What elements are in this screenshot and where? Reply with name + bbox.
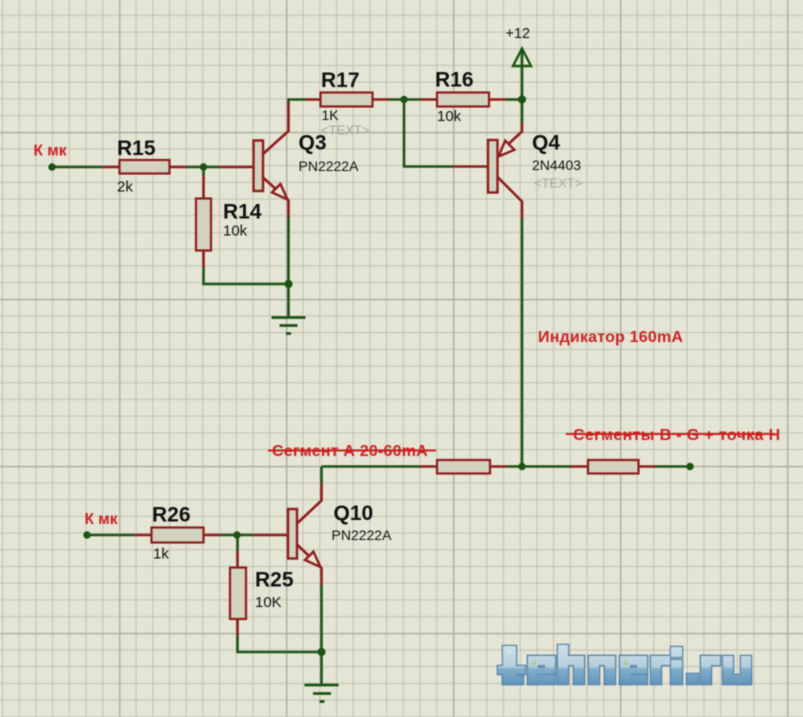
svg-text:Индикатор 160mA: Индикатор 160mA bbox=[538, 329, 683, 346]
wire bbox=[202, 167, 205, 176]
wire bbox=[238, 636, 322, 652]
svg-text:К мк: К мк bbox=[34, 143, 67, 160]
resistor R14 bbox=[196, 176, 262, 268]
label Сегмент А 20-60mA bbox=[268, 443, 436, 460]
svg-text:Q4: Q4 bbox=[532, 132, 560, 155]
node K mk lower bbox=[83, 511, 117, 539]
wire bbox=[389, 98, 420, 101]
svg-text:1k: 1k bbox=[153, 546, 169, 563]
svg-text:<TEXT>: <TEXT> bbox=[534, 176, 582, 191]
pin 1 R15 bbox=[103, 166, 120, 169]
wire bbox=[287, 217, 290, 284]
resistor R26 bbox=[135, 504, 221, 563]
node junction segment row / Q4 collector bbox=[518, 463, 525, 470]
node junction Q3 emitter/R14/ground bbox=[284, 280, 292, 288]
wire bbox=[404, 100, 453, 167]
svg-text:R15: R15 bbox=[117, 137, 156, 160]
node junction R15/R14/Q3 bbox=[200, 163, 207, 170]
node junction R17/R16/Q4-base bbox=[400, 96, 407, 103]
transistor Q4 bbox=[453, 123, 582, 218]
svg-text:2N4403: 2N4403 bbox=[532, 157, 581, 173]
svg-text:10k: 10k bbox=[437, 108, 462, 125]
wire bbox=[204, 268, 289, 285]
wire bbox=[320, 652, 323, 685]
ground bbox=[272, 318, 306, 334]
svg-text:<TEXT>: <TEXT> bbox=[321, 123, 369, 138]
svg-text:1K: 1K bbox=[322, 107, 340, 123]
resistor R25 bbox=[230, 551, 294, 637]
svg-text:К мк: К мк bbox=[85, 511, 118, 528]
svg-text:Сегменты B - G + точка H: Сегменты B - G + точка H bbox=[573, 427, 781, 444]
wire bbox=[289, 100, 307, 105]
svg-text:PN2222A: PN2222A bbox=[299, 158, 360, 174]
wire bbox=[656, 465, 691, 468]
wire bbox=[320, 585, 323, 652]
svg-text:R14: R14 bbox=[223, 201, 262, 224]
svg-text:R17: R17 bbox=[321, 69, 360, 92]
svg-text:R16: R16 bbox=[435, 69, 474, 92]
wire bbox=[320, 467, 323, 484]
wire bbox=[506, 98, 522, 101]
svg-text:10K: 10K bbox=[255, 594, 282, 611]
node terminal right bbox=[686, 463, 693, 470]
pin 2 R15 bbox=[170, 166, 187, 169]
wire bbox=[236, 535, 239, 551]
label Сегменты B - G + точка H bbox=[566, 427, 781, 444]
svg-text:PN2222A: PN2222A bbox=[332, 527, 393, 543]
svg-text:R26: R26 bbox=[152, 504, 191, 527]
wire bbox=[187, 166, 220, 169]
wire bbox=[287, 284, 290, 318]
watermark tehneri.ru bbox=[497, 644, 753, 686]
svg-text:+12: +12 bbox=[506, 26, 531, 42]
wire bbox=[52, 166, 103, 169]
power +12 bbox=[506, 26, 532, 66]
wire bbox=[521, 218, 524, 467]
node junction R25/Q10-emitter/ground bbox=[317, 648, 325, 656]
resistor R15 bbox=[103, 137, 187, 196]
wire bbox=[221, 534, 254, 537]
svg-text:2k: 2k bbox=[117, 179, 133, 196]
svg-text:R25: R25 bbox=[255, 569, 294, 592]
svg-text:10k: 10k bbox=[223, 223, 248, 240]
resistor segment A (unlabeled) bbox=[420, 460, 507, 474]
node K mk upper bbox=[34, 143, 67, 171]
node junction +12 rail bbox=[518, 95, 526, 103]
ground bbox=[305, 685, 339, 702]
svg-text:Q10: Q10 bbox=[334, 502, 374, 525]
wire bbox=[521, 100, 524, 124]
svg-text:Q3: Q3 bbox=[299, 132, 327, 155]
wire bbox=[87, 534, 135, 537]
node junction R26/R25/Q10 bbox=[233, 531, 240, 538]
wire bbox=[521, 49, 524, 100]
resistor R17 bbox=[306, 69, 389, 138]
wire bbox=[322, 465, 421, 468]
resistor segments B-G (unlabeled) bbox=[571, 460, 656, 474]
resistor R16 bbox=[420, 69, 506, 126]
wire bbox=[507, 465, 571, 468]
transistor Q10 bbox=[254, 484, 393, 586]
transistor Q3 bbox=[220, 103, 360, 217]
